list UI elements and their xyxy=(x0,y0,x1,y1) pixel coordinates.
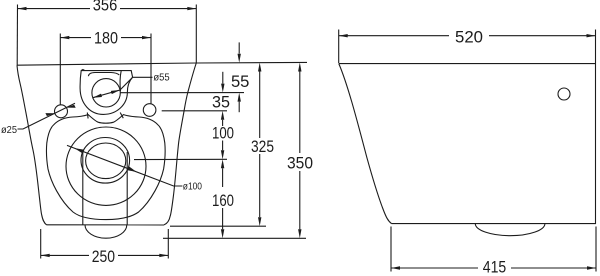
svg-text:ø25: ø25 xyxy=(1,124,17,136)
svg-text:520: 520 xyxy=(455,27,483,46)
svg-text:35: 35 xyxy=(212,93,230,112)
svg-text:325: 325 xyxy=(251,137,274,156)
svg-text:160: 160 xyxy=(212,191,234,210)
svg-text:ø100: ø100 xyxy=(183,180,202,192)
svg-text:350: 350 xyxy=(287,154,313,173)
svg-text:250: 250 xyxy=(92,247,115,266)
svg-text:55: 55 xyxy=(231,72,250,91)
svg-text:415: 415 xyxy=(483,257,507,276)
svg-text:356: 356 xyxy=(93,0,118,14)
svg-text:180: 180 xyxy=(94,28,118,47)
svg-text:100: 100 xyxy=(212,123,234,142)
svg-text:ø55: ø55 xyxy=(153,71,169,83)
